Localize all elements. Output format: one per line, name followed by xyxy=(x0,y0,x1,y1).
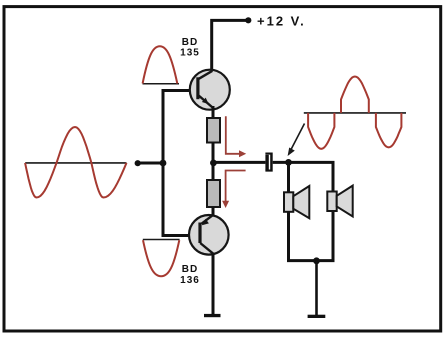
red arrow current path top xyxy=(226,116,246,157)
wire emitter BD135 to R1 xyxy=(212,106,215,119)
node input terminal dot xyxy=(135,160,141,166)
node +12V terminal dot xyxy=(245,17,251,23)
waveform BD136 negative half-wave xyxy=(143,240,179,276)
wire left speaker branch xyxy=(287,162,290,260)
wire capacitor to right speaker branch xyxy=(273,161,335,164)
waveform BD135 positive half-wave xyxy=(143,46,178,83)
waveform BD135 half-wave baseline xyxy=(143,83,180,85)
wire base BD136 xyxy=(162,234,201,237)
waveform output signal axis xyxy=(304,112,406,114)
red arrow current path bottom xyxy=(222,171,246,209)
resistor R1 xyxy=(207,118,220,143)
svg-text:135: 135 xyxy=(180,48,200,59)
resistor R2 xyxy=(207,180,220,207)
wire output node to capacitor xyxy=(213,161,265,164)
capacitor C1 xyxy=(265,153,272,172)
wire output node to R2 xyxy=(212,163,215,181)
waveform output positive half-wave xyxy=(341,77,369,113)
wire speaker bottom rail xyxy=(287,259,335,262)
transistor Q2 BD136 xyxy=(189,215,229,255)
wire base BD135 xyxy=(162,89,199,92)
ground GND2 xyxy=(308,315,326,318)
wire collector BD136 to ground xyxy=(212,254,215,315)
svg-text:BD: BD xyxy=(182,37,198,48)
waveform output negative half-wave left xyxy=(308,113,334,149)
waveform BD136 half-wave baseline xyxy=(143,239,180,241)
node output junction xyxy=(210,160,217,167)
waveform output negative half-wave right xyxy=(376,113,402,147)
label BD 136 xyxy=(180,264,200,286)
node speaker feed dot xyxy=(285,159,292,166)
speaker LS2 xyxy=(327,186,352,217)
waveform input signal axis xyxy=(25,162,126,164)
node base bus junction xyxy=(160,160,167,167)
wire input to base bus xyxy=(138,162,165,165)
speaker LS1 xyxy=(284,186,309,218)
wire R2 to emitter BD136 xyxy=(212,207,215,217)
arrow output pointer xyxy=(288,124,305,157)
transistor Q1 BD135 xyxy=(190,70,230,110)
svg-text:136: 136 xyxy=(180,275,200,286)
wire right speaker branch xyxy=(332,162,335,260)
label BD 135 xyxy=(180,37,200,59)
svg-text:+12 V.: +12 V. xyxy=(257,14,306,29)
svg-text:BD: BD xyxy=(182,264,198,275)
node ground junction xyxy=(313,257,320,264)
waveform input signal sine xyxy=(25,127,126,198)
wire +12V supply feed xyxy=(212,20,248,72)
wire base bus vertical xyxy=(162,91,165,236)
wire ground stem xyxy=(315,261,318,315)
ground GND1 xyxy=(204,314,221,317)
wire R1 to output node xyxy=(212,143,215,164)
